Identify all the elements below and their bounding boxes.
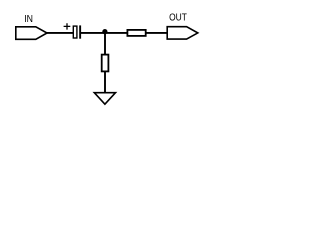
wire node to R2	[104, 33, 106, 55]
C1 polarity +	[64, 23, 71, 29]
capacitor C1 (polarized)	[64, 23, 82, 39]
ground	[94, 93, 115, 105]
wire R2 to ground	[104, 72, 106, 93]
wire IN to C1	[47, 32, 74, 34]
C1 positive plate (hollow box)	[73, 26, 77, 38]
wire C1 to R1	[81, 32, 128, 34]
C1 negative plate (solid bar)	[79, 25, 81, 38]
svg-text:OUT: OUT	[169, 13, 187, 24]
port OUT	[167, 27, 198, 39]
resistor R1 (series, horizontal box)	[127, 30, 145, 36]
svg-text:IN: IN	[24, 14, 33, 25]
resistor R2 (shunt, vertical box)	[102, 55, 109, 72]
port IN	[16, 27, 47, 40]
wire R1 to OUT	[146, 32, 168, 34]
node junction dot	[102, 29, 107, 34]
